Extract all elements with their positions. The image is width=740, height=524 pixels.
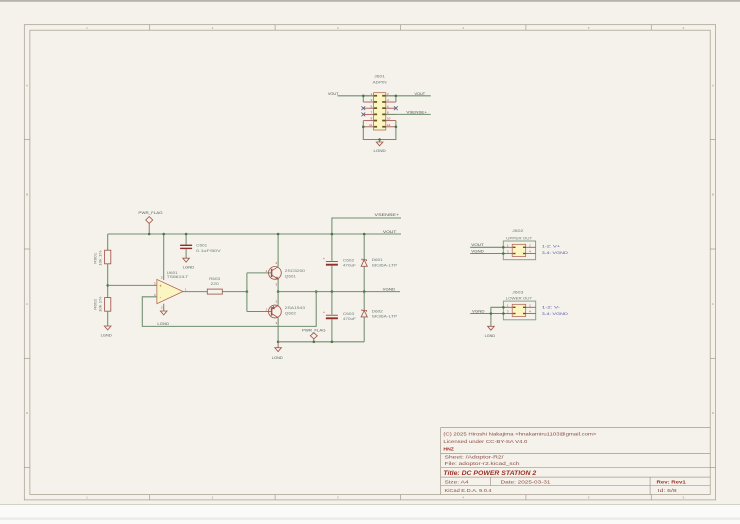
wire VOUT to J601 pin 1: [338, 95, 374, 97]
bottom page area below sheet: [0, 505, 740, 524]
junction J601 pin1: [362, 95, 365, 98]
connector J603 body: [512, 304, 526, 316]
ground LGND below bottom rail: [275, 342, 282, 352]
svg-text:Licensed under CC-BY-SA V4.0: Licensed under CC-BY-SA V4.0: [443, 439, 528, 444]
wire J601 pin10-pin12 down right: [380, 121, 396, 140]
svg-text:B: B: [26, 192, 28, 196]
wire Q601 base: [247, 272, 272, 274]
junction Q601 collector at VOUT rail: [277, 233, 280, 236]
junction D601 bottom: [363, 290, 366, 293]
capacitor C601 stem bottom: [185, 249, 187, 258]
diode D601 stem top: [363, 234, 365, 260]
svg-text:TS861ILT: TS861ILT: [167, 275, 189, 279]
connector J602 pin numbers: [507, 243, 531, 253]
connector J601 pins right: [386, 96, 396, 127]
sheet bottom edge: [0, 504, 740, 506]
ground LGND under J601: [376, 140, 383, 146]
junction J602 pin 3: [502, 252, 505, 255]
svg-text:Rev: Rev1: Rev: Rev1: [657, 479, 687, 484]
svg-text:Sheet: /Adoptor-R2/: Sheet: /Adoptor-R2/: [445, 455, 505, 460]
wire op-amp V- stem: [163, 304, 165, 311]
svg-text:LGND: LGND: [374, 149, 387, 153]
wire J601 pin2-pin4 bracket: [395, 96, 397, 102]
svg-text:Q602: Q602: [285, 311, 296, 315]
svg-text:VSENSE+: VSENSE+: [406, 110, 427, 114]
wire Q602 base: [247, 311, 272, 313]
connector J603 outer loop: [503, 301, 535, 320]
connector J601 pin numbers left: [369, 92, 372, 127]
svg-text:C601: C601: [196, 243, 207, 247]
junction J603 pin 1: [502, 306, 505, 309]
svg-text:LOWER OUT: LOWER OUT: [506, 297, 533, 301]
svg-text:Title: DC POWER STATION 2: Title: DC POWER STATION 2: [443, 470, 536, 477]
wire Q601 emitter: [277, 279, 279, 292]
wire VGND to J603 pin 3: [470, 313, 503, 315]
connector J602 pin notches: [513, 247, 526, 255]
capacitor C602: [326, 262, 338, 265]
wire VGND rail: [278, 291, 400, 293]
diode D601: [361, 259, 367, 267]
svg-text:VOUT: VOUT: [415, 92, 426, 96]
junction J601 pin11: [362, 126, 365, 129]
power flag PWR_FLAG top: [146, 217, 153, 234]
junction J603 pin 3: [502, 312, 505, 315]
svg-text:A: A: [712, 84, 714, 88]
svg-text:Date: 2025-03-31: Date: 2025-03-31: [501, 479, 552, 484]
wire Q602 collector bottom: [277, 318, 279, 342]
frame column numbers top: [86, 26, 684, 30]
ground LGND below R602: [104, 326, 111, 330]
connector J601 pin numbers right: [387, 92, 391, 127]
capacitor C603 stem top: [331, 292, 333, 315]
svg-text:R603: R603: [209, 277, 220, 281]
junction op-amp V+: [162, 233, 165, 236]
svg-text:J601: J601: [374, 75, 385, 79]
svg-text:1-2: V+: 1-2: V+: [542, 245, 560, 249]
junction J601 pin12: [395, 126, 398, 129]
svg-text:2SA1943: 2SA1943: [285, 306, 305, 310]
frame row ticks right: [710, 139, 715, 467]
top page edge band: [0, 0, 740, 2]
resistor R601: [105, 250, 111, 264]
wire R602 to ground: [107, 311, 109, 326]
faint page shadow below sheet: [0, 517, 740, 520]
ground LGND below op-amp: [160, 311, 167, 315]
transistor Q602: [269, 305, 282, 318]
junction base node: [246, 290, 249, 293]
svg-text:ADPIN: ADPIN: [373, 81, 388, 85]
diode D602 stem bottom: [363, 317, 365, 342]
wire op-amp output: [183, 291, 207, 293]
svg-text:220: 220: [211, 282, 219, 286]
svg-text:A: A: [26, 84, 28, 88]
wire R603 to base node: [222, 291, 247, 293]
transistor Q601: [269, 267, 282, 280]
svg-text:VSENSE+: VSENSE+: [375, 213, 400, 217]
svg-text:LGND: LGND: [272, 356, 284, 360]
svg-text:HNZ: HNZ: [443, 447, 454, 452]
svg-text:Q601: Q601: [285, 275, 296, 279]
resistor R602: [105, 298, 111, 312]
wire J601 pin9-pin11 down left: [363, 121, 379, 140]
capacitor C602 stem bottom: [331, 266, 333, 292]
svg-text:VGND: VGND: [472, 309, 485, 313]
junction D601 top: [363, 233, 366, 236]
wire left rail upper: [107, 234, 109, 250]
svg-text:11: 11: [369, 123, 372, 127]
svg-text:C603: C603: [343, 312, 354, 316]
frame column numbers bottom: [86, 496, 684, 500]
svg-text:1-2: V-: 1-2: V-: [542, 306, 560, 310]
junction J603 ground crossing: [490, 312, 493, 315]
junction J602 pin 1: [502, 246, 505, 249]
junction C601: [185, 233, 188, 236]
svg-text:LGND: LGND: [485, 334, 496, 338]
capacitor C603: [326, 315, 338, 318]
connector J601 body: [374, 93, 386, 130]
svg-text:Id: 6/8: Id: 6/8: [658, 488, 678, 493]
svg-text:(C) 2025 Hiroshi Nakajima <hna: (C) 2025 Hiroshi Nakajima <hnakamiru1103…: [443, 431, 597, 436]
ground LGND below C601: [183, 258, 190, 262]
junction feedback at VGND rail: [315, 290, 318, 293]
svg-text:Size: A4: Size: A4: [445, 479, 470, 484]
wire bottom rail: [278, 341, 364, 343]
svg-text:KiCad E.D.A. 9.0.4: KiCad E.D.A. 9.0.4: [445, 488, 493, 493]
svg-text:J602: J602: [512, 229, 523, 233]
diode D602: [361, 309, 367, 317]
svg-text:10: 10: [387, 117, 391, 121]
junction C603 bottom: [331, 341, 334, 344]
connector J601 pins left: [363, 96, 373, 127]
junction C602 top: [331, 233, 334, 236]
frame row letters right: [712, 84, 715, 416]
junction Q601 emitter at VGND rail: [277, 290, 280, 293]
op-amp U601: [157, 279, 183, 303]
frame column ticks bottom: [150, 495, 652, 500]
connector J602 outer loop: [503, 241, 535, 260]
ground LGND below J603: [488, 326, 495, 330]
capacitor C602 stem top: [331, 234, 333, 261]
svg-text:VOUT: VOUT: [383, 230, 397, 234]
svg-text:LGND: LGND: [101, 334, 113, 338]
svg-text:D602: D602: [372, 309, 383, 313]
no-connect pin 6: [394, 106, 398, 110]
svg-text:10k 1%: 10k 1%: [98, 297, 102, 313]
svg-text:SK36A-LTP: SK36A-LTP: [372, 315, 399, 319]
title block: [441, 428, 711, 495]
svg-text:File: adoptor-r2.kicad_sch: File: adoptor-r2.kicad_sch: [445, 461, 521, 466]
svg-text:VGND: VGND: [471, 249, 484, 253]
wire op-amp V+: [163, 234, 165, 280]
wire base vertical: [246, 273, 248, 312]
svg-text:B: B: [712, 192, 714, 196]
wire op-amp inverting feedback: [142, 292, 316, 327]
svg-text:10k 1%: 10k 1%: [98, 250, 102, 266]
connector J603 pins: [503, 307, 535, 313]
svg-text:0.1uF/50V: 0.1uF/50V: [196, 249, 222, 253]
wire VSENSE+ rail: [332, 218, 401, 234]
connector J601 pin notches: [374, 95, 386, 128]
svg-text:VGND: VGND: [383, 288, 396, 292]
connector J603 pin numbers: [507, 303, 531, 313]
svg-text:3-4: VGND: 3-4: VGND: [542, 312, 569, 316]
wire J603 pin 1 to ground: [491, 307, 504, 326]
svg-text:C602: C602: [343, 258, 354, 262]
svg-text:VOUT: VOUT: [471, 243, 484, 247]
junction Q602 at bottom rail: [277, 341, 280, 344]
wire VGND to J602 pin 3: [470, 253, 503, 255]
no-connect pin 7: [361, 113, 365, 117]
wire Q602 emitter top: [277, 292, 279, 306]
svg-text:LGND: LGND: [157, 322, 169, 326]
svg-text:470uF: 470uF: [343, 264, 356, 268]
svg-text:SK36A-LTP: SK36A-LTP: [372, 263, 399, 267]
svg-text:12: 12: [387, 123, 391, 127]
no-connect pin 5: [361, 106, 365, 110]
capacitor C601 stem top: [185, 234, 187, 245]
junction PWR_FLAG top: [148, 233, 151, 236]
junction divider: [106, 284, 109, 287]
frame row ticks left: [24, 139, 30, 467]
connector J602 body: [512, 244, 526, 256]
frame row letters left: [26, 84, 29, 416]
capacitor C601: [180, 245, 192, 248]
connector J602 pins: [503, 247, 535, 253]
svg-text:D601: D601: [372, 258, 383, 262]
svg-text:3-4: VGND: 3-4: VGND: [542, 251, 569, 255]
wire R601 to junction: [107, 264, 109, 298]
svg-text:UPPER OUT: UPPER OUT: [506, 236, 532, 240]
svg-text:PWR_FLAG: PWR_FLAG: [138, 211, 163, 215]
connector J603 pin notches: [513, 307, 526, 315]
resistor R603: [207, 289, 222, 294]
svg-text:VOUT: VOUT: [328, 92, 339, 96]
wire VOUT rail: [108, 233, 401, 235]
junction J601 pin2: [395, 95, 398, 98]
wire VOUT to J602 pin 1: [470, 246, 503, 248]
power flag PWR_FLAG bottom: [310, 333, 317, 342]
diode D601 stem bottom: [363, 266, 365, 291]
junction C602 bottom: [331, 290, 334, 293]
capacitor C603 stem bottom: [331, 319, 333, 342]
svg-text:R601: R601: [94, 252, 98, 263]
svg-text:J603: J603: [512, 290, 523, 294]
wire J601 pin1-pin3 bracket: [362, 96, 364, 102]
diode D602 stem top: [363, 292, 365, 311]
frame column ticks top: [150, 25, 652, 31]
junction PWR_FLAG bottom: [313, 341, 316, 344]
wire divider to op-amp plus input: [108, 284, 157, 286]
wire J601 pin 2 to VOUT: [386, 95, 431, 97]
wire Q601 collector: [277, 234, 279, 267]
junction J601 ground tap: [378, 138, 381, 141]
svg-text:R602: R602: [94, 299, 98, 310]
svg-text:LGND: LGND: [183, 266, 195, 270]
wire J601 pin 8 VSENSE+: [386, 113, 431, 115]
svg-text:2SC5200: 2SC5200: [285, 269, 305, 273]
svg-text:470uF: 470uF: [343, 317, 356, 321]
svg-text:PWR_FLAG: PWR_FLAG: [302, 328, 326, 332]
